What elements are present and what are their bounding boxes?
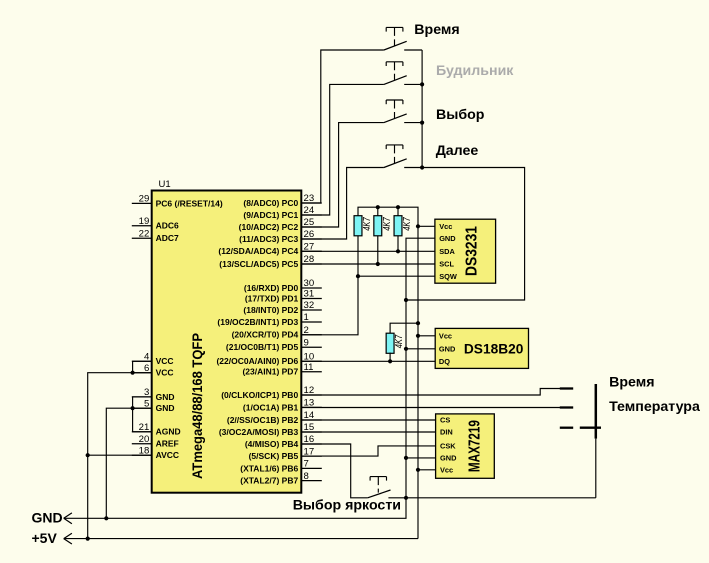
svg-text:(20/XCR/T0) PD4: (20/XCR/T0) PD4	[232, 330, 299, 340]
resistor R4 4K7 (DQ pull-up)	[386, 333, 405, 353]
svg-text:Vcc: Vcc	[439, 222, 452, 231]
svg-text:31: 31	[304, 289, 315, 300]
wire SCL: U1 PC5 to DS3231 SCL	[301, 263, 435, 265]
+5V branch: VCC bracket left and down to +5V line	[88, 373, 133, 539]
wire from U1 pin PC0 up to push-button Время	[301, 50, 384, 203]
wire from U1 pin PC2 up to push-button Выбор	[301, 123, 384, 227]
svg-text:VCC: VCC	[156, 356, 174, 366]
svg-text:(4/MISO) PB4: (4/MISO) PB4	[245, 439, 299, 449]
U1 left-side pin stubs, numbers and names	[132, 194, 223, 461]
label Далее	[436, 143, 479, 159]
+5V rail: top rail over resistors and vertical rail down to +5V line	[358, 207, 418, 538]
wire GND rail to DS18B20 GND	[406, 348, 435, 350]
junction dot bus/Выбор	[420, 121, 424, 125]
wire R1 bottom through SQW junction down to U1 PD4	[301, 236, 358, 335]
svg-text:22: 22	[139, 228, 150, 239]
svg-text:GND: GND	[440, 454, 457, 463]
junction dot +5V line / left branch	[86, 537, 90, 541]
junction dot R4/DQ	[388, 359, 392, 363]
svg-text:4K7: 4K7	[402, 217, 413, 231]
junction dot R4 link / +5V rail	[416, 321, 420, 325]
GND net label and arrow	[32, 510, 72, 526]
svg-text:Выбор: Выбор	[436, 107, 485, 123]
wire push-button Выбор to common bus	[404, 122, 422, 124]
svg-text:(8/ADC0) PC0: (8/ADC0) PC0	[243, 198, 298, 208]
wire +5V rail to MAX7219 Vcc	[418, 469, 436, 471]
svg-text:CS: CS	[440, 416, 450, 425]
wire R3 bottom to SDA	[397, 236, 399, 252]
wire CS: U1 PB2 to MAX7219 CS	[301, 419, 435, 421]
svg-text:GND: GND	[32, 510, 63, 526]
svg-text:(19/OC2B/INT1) PD3: (19/OC2B/INT1) PD3	[217, 317, 298, 327]
wire from U1 pin PC1 up to push-button Будильник	[301, 84, 384, 215]
svg-text:(XTAL1/6) PB6: (XTAL1/6) PB6	[240, 463, 298, 473]
svg-text:32: 32	[304, 300, 315, 311]
svg-text:(21/OC0B/T1) PD5: (21/OC0B/T1) PD5	[226, 342, 299, 352]
junction dot bus/Будильник	[420, 82, 424, 86]
svg-text:PC6 (/RESET/14): PC6 (/RESET/14)	[156, 198, 223, 208]
svg-text:SCL: SCL	[439, 260, 454, 269]
wire U1 PB0 to selector contact 1	[301, 389, 560, 396]
wire R2 top to rail	[377, 207, 379, 216]
svg-text:U1: U1	[159, 179, 171, 190]
svg-text:Далее: Далее	[436, 143, 479, 159]
svg-text:(0/CLKO/ICP1) PB0: (0/CLKO/ICP1) PB0	[221, 390, 298, 400]
svg-text:(10/ADC2) PC2: (10/ADC2) PC2	[239, 222, 299, 232]
junction dot bus/Далее	[420, 165, 424, 169]
svg-text:11: 11	[304, 362, 314, 373]
wire brightness button to GND rail and selector common	[388, 497, 595, 499]
label Выбор яркости	[293, 498, 401, 514]
junction dot GND rail / DS18B20 GND	[404, 347, 408, 351]
junction dot GND rail / button-selector wire	[404, 496, 408, 500]
wire button bus to GND rail (right loop)	[406, 168, 525, 301]
svg-text:Время: Время	[414, 22, 459, 38]
IC DS3231 (RTC) body	[435, 219, 496, 283]
selector common pole bar	[595, 384, 598, 439]
svg-text:DQ: DQ	[439, 357, 450, 366]
junction dot R2/rail	[376, 205, 380, 209]
wire AVCC to +5V branch	[88, 454, 152, 456]
wire GND pin 5 stub to bracket	[133, 407, 152, 409]
svg-text:30: 30	[304, 278, 315, 289]
svg-text:DIN: DIN	[440, 428, 453, 437]
svg-text:(9/ADC1) PC1: (9/ADC1) PC1	[243, 210, 298, 220]
svg-text:Vcc: Vcc	[439, 331, 452, 340]
selector contact 1 (Время)	[560, 387, 573, 389]
wire CSK: U1 PB5 jog up to MAX7219 CSK	[301, 446, 435, 456]
wire VCC pins 4+6 bracket	[133, 361, 152, 372]
svg-text:ATmega48/88/168 TQFP: ATmega48/88/168 TQFP	[190, 333, 206, 479]
label Будильник	[436, 63, 514, 79]
svg-text:MAX7219: MAX7219	[466, 420, 483, 472]
junction dot GND bracket	[131, 406, 135, 410]
wire R4 top to +5V rail	[390, 323, 418, 333]
junction dot R3/SDA	[396, 249, 400, 253]
svg-text:Температура: Температура	[609, 399, 700, 415]
selector actuator dashed link	[560, 427, 601, 429]
wire DIN: U1 PB3 to MAX7219 DIN	[301, 431, 435, 433]
svg-text:GND: GND	[439, 344, 456, 353]
push-button Далее	[384, 145, 407, 168]
svg-text:4K7: 4K7	[362, 217, 373, 231]
wire GND rail to MAX7219 GND	[406, 457, 436, 459]
junction dot R2/SCL	[376, 262, 380, 266]
wire R2 bottom to SCL	[377, 236, 379, 265]
svg-text:AGND: AGND	[156, 427, 181, 437]
wire selector pole down to GND wire	[595, 439, 597, 498]
svg-text:Выбор яркости: Выбор яркости	[293, 498, 401, 514]
resistor R3 4K7 (SDA pull-up)	[394, 216, 413, 236]
resistor R1 4K7 (SQW pull-up)	[354, 216, 373, 236]
wire GND pins 3+5+AGND bracket	[133, 397, 152, 432]
svg-text:7: 7	[304, 459, 309, 470]
junction dot VCC bracket	[131, 371, 135, 375]
svg-text:(12/SDA/ADC4) PC4: (12/SDA/ADC4) PC4	[218, 246, 298, 256]
resistor R2 4K7 (SCL pull-up)	[374, 216, 393, 236]
label Температура (selector)	[609, 399, 700, 415]
label Выбор	[436, 107, 485, 123]
junction dot +5V branch / AVCC	[86, 453, 90, 457]
junction dot +5V rail / MAX7219 Vcc	[416, 468, 420, 472]
svg-text:ADC6: ADC6	[156, 221, 179, 231]
svg-text:AVCC: AVCC	[156, 450, 179, 460]
push-button Выбор яркости	[368, 477, 391, 498]
svg-text:Vcc: Vcc	[440, 465, 453, 474]
label Время	[414, 22, 459, 38]
junction dot GND rail / MAX7219 GND	[404, 456, 408, 460]
IC MAX7219 (display driver) body	[436, 414, 495, 478]
svg-text:ADC7: ADC7	[156, 233, 179, 243]
svg-text:1: 1	[304, 312, 309, 323]
svg-text:GND: GND	[439, 234, 456, 243]
svg-text:4K7: 4K7	[382, 217, 393, 231]
svg-text:(5/SCK) PB5: (5/SCK) PB5	[249, 451, 299, 461]
wire SQW: DS3231 SQW to R1 bottom	[358, 275, 435, 277]
svg-text:(18/INT0) PD2: (18/INT0) PD2	[243, 305, 298, 315]
svg-text:GND: GND	[156, 392, 175, 402]
GND branch: bracket left and down to GND line	[106, 408, 132, 518]
wire R3 top to rail	[397, 207, 399, 216]
svg-text:(1/OC1A) PB1: (1/OC1A) PB1	[243, 402, 299, 412]
svg-text:(3/OC2A/MOSI) PB3: (3/OC2A/MOSI) PB3	[219, 427, 299, 437]
+5V net label, arrow and +5V line to rail	[32, 530, 419, 546]
wire push-button Далее to common bus	[404, 167, 422, 169]
svg-text:GND: GND	[156, 403, 175, 413]
svg-text:(16/RXD) PD0: (16/RXD) PD0	[244, 283, 299, 293]
IC U1 ATmega48/88/168 TQFP body	[152, 179, 302, 493]
svg-text:(17/TXD) PD1: (17/TXD) PD1	[245, 293, 299, 303]
selector contact 2 (Температура)	[560, 406, 573, 408]
svg-text:SQW: SQW	[439, 272, 457, 281]
svg-text:Будильник: Будильник	[436, 63, 514, 79]
wire +5V rail to DS3231 Vcc pin	[418, 225, 435, 227]
wire U1 PB1 to selector contact 2	[301, 407, 560, 409]
svg-text:(22/OC0A/AIN0) PD6: (22/OC0A/AIN0) PD6	[216, 356, 298, 366]
junction dot R3/rail	[396, 205, 400, 209]
wire +5V rail to DS18B20 Vcc	[418, 335, 435, 337]
U1 right-side pin stubs, numbers and names	[216, 193, 321, 485]
svg-text:(23/AIN1) PD7: (23/AIN1) PD7	[242, 367, 298, 377]
button common bus vertical wire	[421, 50, 423, 168]
wire from U1 pin PC3 up to push-button Далее	[301, 168, 384, 240]
svg-text:DS18B20: DS18B20	[464, 341, 524, 356]
svg-text:(XTAL2/7) PB7: (XTAL2/7) PB7	[240, 476, 298, 486]
wire SDA: U1 PC4 to DS3231 SDA	[301, 250, 435, 252]
junction dot R1/SQW	[356, 274, 360, 278]
push-button Будильник	[384, 62, 407, 85]
push-button Время	[384, 27, 407, 50]
svg-text:VCC: VCC	[156, 368, 174, 378]
wire push-button Будильник to common bus	[404, 83, 422, 85]
junction dot +5V rail / DS3231 Vcc	[416, 224, 420, 228]
svg-text:Время: Время	[609, 374, 654, 390]
svg-text:(13/SCL/ADC5) PC5: (13/SCL/ADC5) PC5	[219, 259, 298, 269]
svg-text:9: 9	[304, 338, 309, 349]
IC DS18B20 (temperature sensor) body	[435, 328, 528, 368]
junction dot +5V rail / DS18B20 Vcc	[416, 334, 420, 338]
svg-text:8: 8	[304, 471, 309, 482]
svg-text:4K7: 4K7	[394, 334, 405, 348]
svg-text:19: 19	[139, 216, 150, 227]
junction dot GND rail / button loop	[404, 298, 408, 302]
svg-text:+5V: +5V	[32, 530, 58, 546]
wire U1 PB4 down to brightness button	[301, 444, 367, 498]
svg-text:(11/ADC3) PC3: (11/ADC3) PC3	[239, 234, 298, 244]
svg-text:CSK: CSK	[440, 442, 456, 451]
svg-text:20: 20	[139, 434, 150, 445]
GND rail: DS3231 GND pin, vertical rail down and across to GND arrow	[64, 238, 435, 518]
label Время (selector)	[609, 374, 654, 390]
wire push-button Время to common bus	[404, 49, 422, 51]
svg-text:29: 29	[139, 194, 150, 205]
svg-text:AREF: AREF	[156, 439, 179, 449]
push-button Выбор	[384, 100, 407, 123]
svg-text:DS3231: DS3231	[464, 226, 481, 276]
wire DQ: U1 PD6 to DS18B20 DQ	[301, 360, 435, 362]
svg-text:SDA: SDA	[439, 247, 455, 256]
junction dot GND line / GND branch	[104, 516, 108, 520]
svg-text:(2//SS/OC1B) PB2: (2//SS/OC1B) PB2	[227, 415, 299, 425]
wire R4 bottom to DQ	[389, 353, 391, 362]
